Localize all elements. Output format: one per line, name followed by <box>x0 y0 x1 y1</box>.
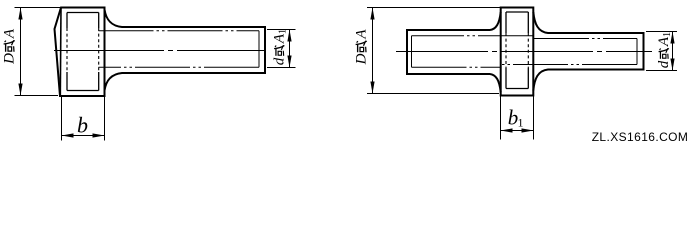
svg-text:b: b <box>77 113 88 138</box>
svg-text:D: D <box>354 53 370 65</box>
svg-text:ZL.XS1616.COM: ZL.XS1616.COM <box>592 130 689 144</box>
svg-text:A: A <box>2 28 18 39</box>
svg-text:1: 1 <box>518 116 524 130</box>
svg-text:d: d <box>272 57 288 65</box>
svg-text:A: A <box>354 29 370 40</box>
svg-text:1: 1 <box>662 32 673 37</box>
svg-text:1: 1 <box>278 29 289 34</box>
svg-text:D: D <box>2 53 18 65</box>
svg-text:d: d <box>656 60 672 68</box>
